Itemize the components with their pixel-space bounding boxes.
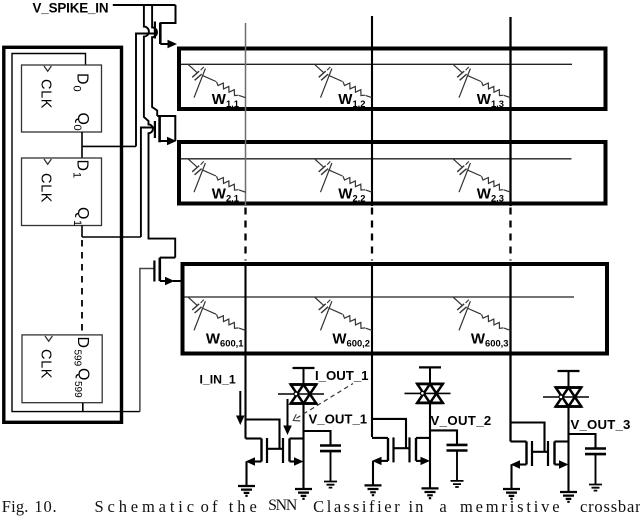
wire: capacitor C3 to ground [595, 455, 597, 485]
wire: Q1 branch to row-2 gate riser [82, 236, 141, 238]
threshold-switch neuron D3 (bowtie) [543, 371, 589, 407]
ground (capacitor C3) [589, 485, 602, 491]
svg-text:D: D [74, 73, 91, 85]
wire: row-1 gate riser from Q0 [136, 34, 155, 147]
arrow: I_IN_1 current direction [239, 391, 241, 421]
svg-text:0: 0 [71, 125, 83, 131]
svg-text:V_SPIKE_IN: V_SPIKE_IN [33, 1, 109, 16]
arrow: T2 source into row 2 [167, 137, 177, 145]
column bit line 1 [245, 23, 247, 206]
crossbar row 1 box [179, 49, 606, 110]
flip-flop FF1 box [22, 158, 102, 226]
arrow: M2b source [421, 457, 431, 465]
svg-text:599: 599 [72, 381, 83, 398]
svg-text:CLK: CLK [38, 79, 54, 109]
wire: neuron node vertical (V_OUT_1 net) [302, 404, 304, 489]
wire: dashed ellipsis between FF1 and FF599 [81, 240, 83, 334]
transistor mirror M1a (diode-connected NMOS) [262, 438, 284, 463]
ground (M3b source) [560, 492, 577, 502]
svg-text:CLK: CLK [38, 349, 54, 379]
wire: spike drop B (rail to row-2 drain) with hop [152, 5, 157, 116]
transistor mirror M1b (output NMOS) [283, 438, 304, 463]
wire: row-3 gate riser from Q599 loop [140, 269, 154, 412]
svg-text:1: 1 [71, 172, 83, 178]
memristor cell W1,3 [453, 64, 511, 97]
svg-text:V_OUT_3: V_OUT_3 [571, 417, 631, 432]
capacitor C1 [320, 446, 341, 452]
svg-text:599: 599 [72, 350, 83, 367]
transistor mirror M3a (diode-connected NMOS) [527, 441, 549, 466]
wire: column 2 into mirror (drain feed + diode connection) [372, 437, 388, 439]
crossbar row 2 box [179, 142, 606, 204]
shift register outer box [4, 47, 122, 422]
wire: spike drop A (rail to row-3 drain) with hops [144, 5, 175, 258]
wire: M3a source to ground [519, 463, 527, 465]
memristor cell W2,1 [188, 159, 246, 192]
memristor cell W1,1 [188, 64, 246, 97]
memristor cell W600,3 [453, 297, 511, 330]
transistor row driver T2 [155, 116, 175, 142]
wire: M1a source to ground [254, 460, 262, 462]
transistor mirror M2b (output NMOS) [410, 437, 431, 462]
wire: column 3 into mirror (drain feed + diode connection) [511, 440, 527, 442]
transistor row driver T1 [155, 5, 176, 44]
svg-text:I_OUT_1: I_OUT_1 [315, 368, 369, 383]
wire: capacitor C2 to ground [456, 451, 458, 481]
ground (M2a source) [365, 485, 382, 495]
FF599 clock chevron [45, 336, 52, 341]
threshold-switch neuron D2 (bowtie) [405, 367, 451, 403]
wire: Q0 branch to row-1 gate riser [82, 145, 136, 147]
wire: Q0 to D1 [81, 132, 83, 158]
ground (M1a source) [238, 486, 255, 496]
wire: row 1 word line [181, 63, 572, 65]
FF1 clock chevron [44, 159, 51, 164]
wire: Q599 stub to feedback loop [82, 403, 84, 412]
arrow: M2a source [372, 457, 382, 465]
svg-text:CLK: CLK [38, 173, 54, 203]
ground (M2b source) [422, 488, 439, 498]
capacitor C2 [447, 445, 468, 451]
wire: V_SPIKE_IN rail [113, 4, 176, 6]
transistor mirror M2a (diode-connected NMOS) [388, 437, 410, 462]
wire: M1b source arrow to ground rail [290, 460, 295, 462]
svg-text:V_OUT_2: V_OUT_2 [431, 413, 492, 428]
wire: row 600 word line [185, 296, 575, 298]
wire: row 2 word line [181, 158, 572, 160]
figure caption [0, 497, 640, 524]
FF0 clock chevron [44, 66, 51, 71]
arrow: M3a source [511, 460, 521, 468]
svg-text:D: D [74, 160, 91, 172]
dashed leader line from I_OUT_1 [297, 384, 354, 419]
wire: V_OUT_2 node to capacitor [430, 430, 457, 444]
crossbar row 600 box [183, 264, 608, 354]
memristor cell W1,2 [315, 64, 373, 97]
wire: V_OUT_3 node to capacitor [569, 434, 596, 448]
memristor cell W2,3 [453, 159, 511, 192]
wire: column 1 into mirror (drain feed + diode connection) [246, 437, 262, 439]
arrow: M1b source [294, 457, 304, 465]
flip-flop FF599 box [22, 335, 102, 403]
wire: Q1 stub down [81, 226, 83, 238]
svg-text:1: 1 [71, 220, 83, 226]
ground (M3a source) [503, 489, 520, 499]
flip-flop FF0 box [22, 65, 102, 132]
wire: M2a source to ground [380, 460, 388, 462]
transistor mirror M3b (output NMOS) [548, 441, 569, 466]
arrow: M1a source [246, 457, 256, 465]
arrow: M3b source [559, 460, 569, 468]
svg-text:Q: Q [74, 113, 91, 125]
column bit line 2 [371, 16, 373, 206]
ground (capacitor C1) [324, 482, 337, 488]
svg-text:Q: Q [74, 207, 91, 219]
arrow: V_OUT_1 probe arrow [287, 399, 289, 431]
memristor cell W600,1 [188, 297, 246, 330]
capacitor C3 [585, 449, 606, 455]
transistor row driver T3 [154, 258, 183, 282]
memristor cell W2,2 [315, 159, 373, 192]
memristor cell W600,2 [315, 297, 373, 330]
ground (capacitor C2) [451, 481, 464, 487]
column bit line 3 [509, 17, 511, 206]
wire: M3b source arrow to ground rail [555, 463, 560, 465]
wire: capacitor C1 to ground [330, 452, 332, 482]
svg-text:V_OUT_1: V_OUT_1 [309, 412, 368, 427]
svg-text:Q: Q [75, 368, 92, 380]
ground (M1b source) [295, 489, 312, 499]
wire: row-2 gate riser from Q1 [141, 128, 154, 238]
wire: Q599 feedback loop (top segment to D0) [12, 54, 140, 412]
wire: neuron node vertical (V_OUT_2 net) [429, 403, 431, 488]
arrow: T3 source into row 3 [165, 277, 175, 285]
svg-text:0: 0 [71, 86, 83, 92]
wire: M2b source arrow to ground rail [416, 460, 421, 462]
svg-text:D: D [74, 337, 91, 349]
wire: neuron node vertical (V_OUT_3 net) [567, 407, 569, 492]
svg-text:I_IN_1: I_IN_1 [200, 373, 236, 387]
threshold-switch neuron D1 (bowtie) [278, 368, 324, 404]
wire: V_OUT_1 node to capacitor [304, 431, 331, 445]
arrow: T1 source into row 1 [168, 40, 178, 48]
